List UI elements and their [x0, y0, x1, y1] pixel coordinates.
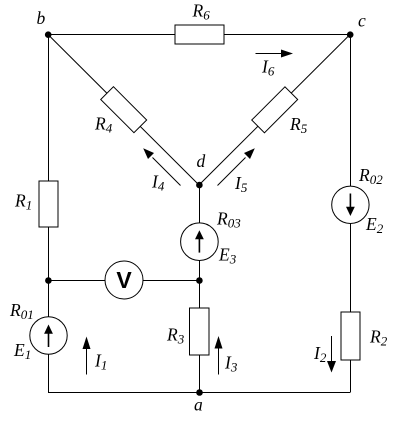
- wire voltmeter branch: [49, 280, 200, 282]
- wire bottom rail: [48, 392, 350, 394]
- node c: [347, 31, 354, 38]
- node b: [45, 31, 52, 38]
- wire right vertical c to bottom: [350, 35, 352, 393]
- current arrow I2: [331, 336, 333, 362]
- resistor R5: [252, 87, 298, 133]
- current arrow I4: [153, 158, 181, 186]
- current arrow I6: [256, 53, 283, 55]
- svg-text:d: d: [197, 151, 206, 171]
- wire top rail b to c: [48, 34, 350, 36]
- svg-text:b: b: [37, 8, 46, 28]
- source E3 with internal resistance R03: [181, 223, 219, 261]
- voltmeter V: [105, 261, 143, 299]
- junction middle voltmeter: [196, 277, 203, 284]
- wire left vertical b to bottom: [48, 35, 50, 393]
- wire middle vertical d to a: [199, 185, 201, 393]
- current arrow I5: [218, 158, 246, 186]
- node d: [196, 182, 203, 189]
- source E1 with internal resistance R01: [30, 317, 67, 354]
- resistor R4: [101, 87, 147, 133]
- resistor R1: [39, 181, 58, 227]
- resistor R2: [341, 312, 360, 360]
- junction left voltmeter: [45, 277, 52, 284]
- svg-text:c: c: [358, 11, 366, 31]
- node a: [196, 389, 203, 396]
- wire diagonal d to c: [199, 35, 350, 186]
- resistor R3: [190, 308, 210, 355]
- source E2 with internal resistance R02: [332, 186, 369, 223]
- svg-text:a: a: [194, 395, 203, 415]
- current arrow I1: [86, 348, 88, 375]
- current arrow I3: [218, 348, 220, 375]
- wire diagonal b to d: [48, 35, 199, 186]
- svg-text:V: V: [116, 267, 132, 293]
- resistor R6: [175, 25, 224, 44]
